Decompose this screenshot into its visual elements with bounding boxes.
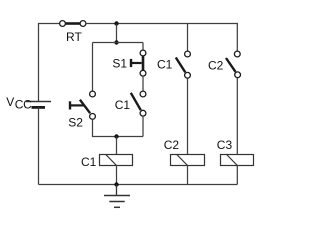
pushbutton S2 (normally open) — [70, 91, 95, 119]
svg-text:S1: S1 — [112, 56, 127, 70]
wire: S2 to mid rail — [93, 119, 144, 136]
svg-text:V: V — [6, 95, 14, 109]
svg-text:S2: S2 — [68, 116, 83, 130]
ground — [104, 185, 130, 208]
relay coil C2 — [171, 155, 205, 166]
wire: drop from top rail to contact C1b — [187, 24, 189, 52]
node: junction on top rail — [114, 21, 118, 25]
wire: coil C1 to ground rail — [116, 166, 118, 185]
node: junction on mid rail — [114, 134, 118, 138]
wire: top rail left segment (Vcc top to RT) — [39, 24, 60, 102]
wire: drop to S1 — [142, 43, 144, 51]
battery Vcc — [26, 102, 51, 108]
wire: drop from top-right corner to contact C2b — [236, 23, 238, 51]
relay contact C2b (normally open) — [226, 51, 241, 78]
svg-text:C2: C2 — [164, 138, 180, 152]
relay contact C1a (normally open, holding contact) — [131, 91, 146, 116]
svg-text:C1: C1 — [157, 58, 173, 72]
wire: mid rail to coil C1 — [116, 137, 118, 155]
svg-text:C3: C3 — [217, 138, 233, 152]
wire: junction drop — [116, 24, 118, 43]
wire: left rail bottom segment — [38, 107, 40, 184]
wire: contact C2b to coil C3 — [236, 78, 238, 155]
relay coil C3 — [221, 155, 254, 166]
label Vcc — [6, 95, 32, 112]
wire: top rail right segment (RT to top-right corner) — [86, 23, 238, 25]
svg-text:CC: CC — [15, 98, 32, 112]
svg-text:C1: C1 — [115, 98, 131, 112]
wire: contact C1b to coil C2 — [187, 78, 189, 154]
wire: S1 to contact C1a — [142, 76, 144, 91]
node: junction on S1/S2 feed wire — [114, 40, 118, 44]
wire: bottom ground rail — [39, 184, 238, 186]
relay coil C1 — [100, 155, 133, 166]
wire: coil C2 to ground rail — [187, 166, 189, 185]
svg-text:C1: C1 — [81, 155, 97, 169]
pushbutton S1 (normally closed) — [131, 50, 146, 76]
switch RT (closed thermal contact) — [60, 21, 86, 27]
relay contact C1b (normally open) — [176, 51, 191, 78]
wire: S1/S2 feed horizontal — [93, 42, 144, 44]
svg-text:RT: RT — [66, 30, 82, 44]
wire: coil C3 to ground rail — [236, 166, 238, 185]
node: junction at ground — [114, 182, 118, 186]
wire: drop to S2 — [92, 43, 94, 92]
wire: contact C1a to mid rail — [142, 116, 144, 136]
svg-text:C2: C2 — [208, 58, 224, 72]
